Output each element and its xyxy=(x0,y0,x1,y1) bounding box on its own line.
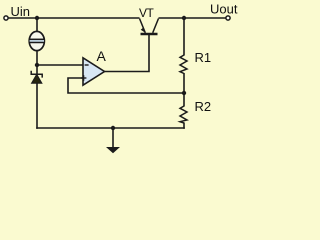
minus mark inverting input xyxy=(85,64,89,66)
node ground junction xyxy=(111,126,115,130)
wire bottom rail xyxy=(36,127,185,129)
emitter line (left, arrow toward base) xyxy=(140,19,146,33)
node junction top-right xyxy=(182,16,186,20)
wire R1 to divider node xyxy=(183,73,185,93)
svg-text:R1: R1 xyxy=(195,50,212,65)
base bar xyxy=(141,33,158,36)
collector line (right) xyxy=(153,19,159,33)
wire top rail right xyxy=(159,17,227,19)
wire node to zener xyxy=(36,65,38,75)
terminal Uout xyxy=(226,16,230,20)
resistor R1 xyxy=(180,50,211,74)
zener diode VD xyxy=(31,71,42,83)
wire op-amp output to transistor base xyxy=(104,35,149,72)
wire divider node to R2 xyxy=(183,93,185,107)
op-amp A xyxy=(81,48,107,85)
wire current source to node xyxy=(36,51,38,67)
node divider junction xyxy=(182,91,186,95)
svg-text:Uout: Uout xyxy=(210,2,238,17)
node reference (zener top) xyxy=(35,63,39,67)
wire R2 to bottom rail xyxy=(183,123,185,129)
wire node to op-amp inverting input xyxy=(37,64,83,66)
svg-text:VT: VT xyxy=(139,6,155,20)
svg-text:A: A xyxy=(97,48,107,64)
wire feedback from non-inverting input xyxy=(68,78,184,93)
wire zener to bottom rail xyxy=(36,83,38,129)
wire Uin node to current source xyxy=(36,18,38,32)
wire Uout node to R1 xyxy=(183,18,185,56)
svg-text:Uin: Uin xyxy=(11,4,31,19)
transistor VT xyxy=(139,6,159,34)
node junction top-left xyxy=(35,16,39,20)
current source I1 xyxy=(29,31,44,50)
svg-text:R2: R2 xyxy=(195,99,212,114)
resistor R2 xyxy=(180,99,211,123)
plus mark non-inverting input xyxy=(81,77,87,79)
ground xyxy=(106,128,120,153)
terminal Uin xyxy=(4,16,8,20)
wire top rail left xyxy=(8,17,139,19)
